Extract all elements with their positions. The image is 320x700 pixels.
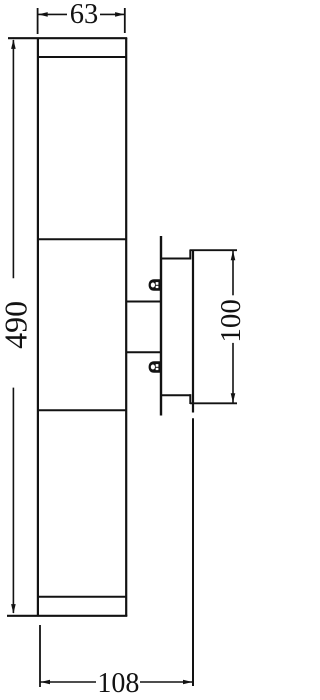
dim 63 right arrow [115, 12, 125, 17]
lamp bottom cap seam [37, 596, 127, 598]
canopy bottom step [189, 394, 191, 404]
dim 63 right extension line [124, 8, 126, 33]
dim 100 dimension line upper segment [232, 251, 234, 295]
lamp body right edge [125, 38, 127, 616]
dim 63 left arrow [38, 12, 48, 17]
dim 108 right arrow [183, 680, 193, 685]
svg-text:100: 100 [215, 299, 245, 343]
svg-text:490: 490 [0, 301, 33, 349]
dim 108 dimension line left segment [40, 681, 96, 683]
dim 63 dimension line right segment [100, 13, 125, 15]
dim 490 top arrow [11, 39, 16, 49]
dim 108 left arrow [41, 680, 51, 685]
canopy right wall edge [192, 250, 194, 413]
dim 100 top arrow [231, 251, 236, 261]
dim 100 dimension line lower segment [232, 343, 234, 403]
dim 108 dimension line right segment [140, 681, 193, 683]
dim 490 dimension line lower segment [12, 388, 14, 613]
canopy bottom edge [161, 394, 191, 396]
lamp top cap seam [37, 56, 127, 58]
screw lower [149, 361, 160, 373]
wall extension line below canopy [192, 418, 194, 686]
wall plate [160, 236, 162, 416]
screw upper [149, 279, 160, 291]
svg-text:108: 108 [97, 668, 139, 699]
lamp upper glass seam [37, 238, 127, 240]
canopy top edge [161, 258, 191, 260]
dim 100 bottom extension line [190, 402, 237, 404]
dim 63 dimension line left segment [38, 13, 67, 15]
dim 108 left extension line [39, 625, 41, 687]
dim 100 bottom arrow [231, 393, 236, 403]
dim 100 top extension line [190, 249, 237, 251]
mounting arm bottom line [126, 351, 161, 353]
lamp top cap top edge [8, 37, 127, 39]
lamp bottom cap bottom edge [7, 615, 127, 617]
dim 490 dimension line upper segment [12, 40, 14, 278]
dim 63 left extension line [37, 8, 39, 34]
canopy top step [189, 250, 191, 260]
lamp lower glass seam [37, 409, 127, 411]
lamp body left edge [37, 38, 39, 616]
dim 490 bottom arrow [11, 604, 16, 614]
svg-text:63: 63 [70, 0, 99, 30]
mounting arm top line [126, 301, 161, 303]
